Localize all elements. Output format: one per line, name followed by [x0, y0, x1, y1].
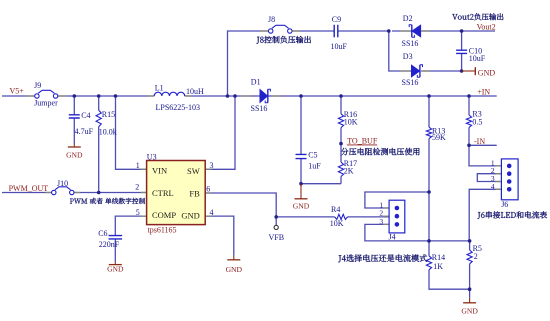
svg-text:D2: D2: [403, 14, 413, 23]
svg-text:L1: L1: [155, 84, 164, 93]
svg-text:SW: SW: [187, 166, 200, 176]
svg-text:J8: J8: [268, 15, 275, 24]
svg-text:C9: C9: [332, 15, 341, 24]
svg-text:LPS6225-103: LPS6225-103: [156, 103, 200, 112]
svg-text:CTRL: CTRL: [152, 188, 174, 198]
svg-text:3: 3: [379, 217, 383, 226]
svg-text:GND: GND: [461, 306, 478, 315]
svg-text:1: 1: [136, 161, 140, 170]
svg-text:tps61165: tps61165: [148, 226, 177, 235]
svg-text:C5: C5: [308, 151, 317, 160]
svg-text:2: 2: [474, 252, 478, 261]
svg-text:Vout2: Vout2: [477, 23, 496, 32]
svg-text:D1: D1: [251, 78, 261, 87]
svg-text:+IN: +IN: [477, 88, 490, 97]
svg-text:C6: C6: [98, 229, 107, 238]
svg-text:6: 6: [206, 185, 210, 194]
svg-text:10K: 10K: [344, 118, 358, 127]
svg-text:59K: 59K: [432, 133, 446, 142]
svg-text:COMP: COMP: [152, 210, 176, 220]
svg-text:C4: C4: [81, 111, 90, 120]
svg-text:2K: 2K: [344, 166, 354, 175]
svg-text:GND: GND: [226, 265, 243, 274]
svg-text:R14: R14: [432, 253, 445, 262]
svg-text:1K: 1K: [433, 262, 443, 271]
svg-text:V5+: V5+: [10, 87, 25, 96]
svg-text:U3: U3: [147, 153, 157, 162]
svg-text:R15: R15: [102, 110, 115, 119]
svg-text:GND: GND: [107, 265, 124, 274]
svg-text:J6: J6: [501, 200, 508, 209]
svg-text:J10: J10: [57, 179, 68, 188]
svg-text:220nF: 220nF: [99, 240, 120, 249]
svg-text:SS16: SS16: [402, 78, 419, 87]
svg-text:GND: GND: [66, 151, 83, 160]
svg-text:PWM_OUT: PWM_OUT: [9, 184, 49, 193]
svg-text:VFB: VFB: [269, 233, 285, 242]
svg-text:10uH: 10uH: [186, 87, 204, 96]
svg-text:D3: D3: [403, 52, 413, 61]
svg-text:J9: J9: [34, 81, 41, 90]
svg-text:5: 5: [136, 208, 140, 217]
svg-text:TO_BUF: TO_BUF: [347, 137, 378, 146]
svg-text:4.7uF: 4.7uF: [75, 127, 94, 136]
svg-text:-IN: -IN: [474, 137, 485, 146]
svg-text:0.5: 0.5: [472, 118, 482, 127]
svg-text:J4: J4: [389, 233, 396, 242]
svg-text:R4: R4: [331, 205, 340, 214]
svg-text:4: 4: [491, 182, 495, 191]
svg-text:10.0k: 10.0k: [99, 128, 117, 137]
svg-text:1uF: 1uF: [308, 161, 321, 170]
svg-text:Jumper: Jumper: [34, 99, 58, 108]
svg-text:10uF: 10uF: [331, 42, 348, 51]
svg-text:VIN: VIN: [152, 166, 167, 176]
svg-text:3: 3: [210, 161, 214, 170]
svg-text:10uF: 10uF: [469, 54, 486, 63]
svg-text:10K: 10K: [330, 219, 344, 228]
svg-text:FB: FB: [189, 188, 200, 198]
svg-text:GND: GND: [181, 210, 199, 220]
svg-text:SS16: SS16: [251, 104, 268, 113]
svg-text:GND: GND: [478, 68, 496, 77]
svg-text:2: 2: [135, 183, 139, 192]
svg-text:GND: GND: [293, 201, 310, 210]
svg-text:4: 4: [210, 208, 214, 217]
svg-text:SS16: SS16: [402, 39, 419, 48]
